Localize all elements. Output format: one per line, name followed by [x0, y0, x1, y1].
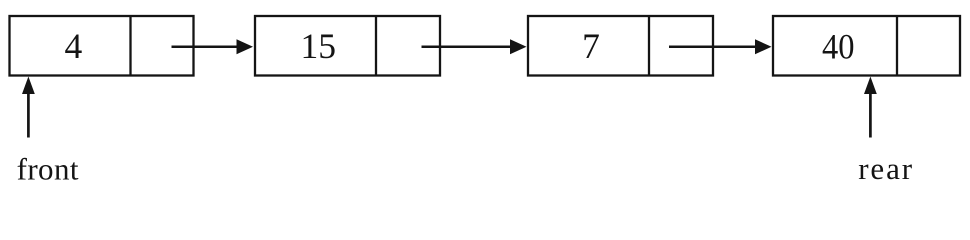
svg-text:4: 4 — [65, 26, 83, 66]
svg-text:front: front — [17, 151, 79, 186]
svg-text:rear: rear — [858, 151, 914, 186]
svg-text:40: 40 — [822, 26, 855, 66]
svg-text:15: 15 — [300, 26, 336, 66]
svg-text:7: 7 — [582, 26, 600, 66]
